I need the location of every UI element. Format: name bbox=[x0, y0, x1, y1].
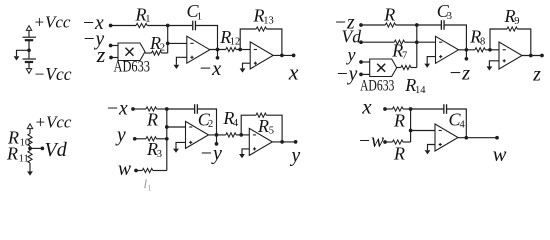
wire bbox=[361, 24, 385, 26]
node Vd input dot bbox=[359, 40, 363, 44]
wire bbox=[153, 170, 167, 172]
node -z input dot bbox=[359, 23, 363, 27]
node x output dot bbox=[292, 54, 296, 58]
wire (A6 output) bbox=[272, 141, 295, 143]
wire bbox=[267, 29, 282, 55]
node column wire bbox=[166, 109, 168, 171]
svg-text:2: 2 bbox=[160, 43, 165, 54]
node -y input dot bbox=[109, 44, 113, 48]
ground bbox=[240, 68, 246, 72]
junction dot bbox=[238, 48, 242, 52]
wire bbox=[447, 109, 467, 138]
node -x input dot bbox=[109, 24, 113, 28]
svg-text:−z: −z bbox=[448, 62, 470, 84]
junction dot bbox=[216, 48, 220, 52]
node -x input dot bbox=[131, 107, 135, 111]
multiplier U2 AD633 bbox=[370, 59, 397, 77]
junction dot bbox=[415, 23, 419, 27]
node -y input dot bbox=[359, 73, 363, 77]
power supply +Vcc terminal arrow bbox=[26, 26, 31, 31]
wire (A7 output) bbox=[458, 137, 497, 139]
wire (+ input to ground) bbox=[427, 57, 435, 64]
wire bbox=[405, 41, 417, 43]
multiplier U1 AD633 bbox=[118, 43, 145, 61]
svg-text:z: z bbox=[532, 64, 541, 85]
node w output dot bbox=[495, 136, 499, 140]
svg-text:+Vcc: +Vcc bbox=[35, 112, 72, 131]
divider +Vcc terminal arrow bbox=[27, 124, 32, 129]
node -w input dot bbox=[383, 140, 387, 144]
wire bbox=[397, 67, 401, 69]
junction dot bbox=[215, 133, 219, 137]
wire bbox=[396, 24, 417, 26]
junction dot bbox=[166, 42, 170, 46]
svg-text:12: 12 bbox=[230, 37, 241, 48]
svg-text:R: R bbox=[383, 5, 395, 25]
junction dot bbox=[165, 107, 169, 111]
wire (A3 output) bbox=[459, 49, 476, 51]
svg-text:Vd: Vd bbox=[45, 139, 68, 161]
wire bbox=[145, 52, 152, 54]
resistor R bbox=[146, 107, 157, 111]
svg-text:14: 14 bbox=[415, 85, 426, 96]
svg-text:y: y bbox=[290, 146, 301, 167]
node column wire bbox=[167, 26, 169, 54]
node y output dot bbox=[294, 140, 298, 144]
feedback wire R13 (up/over) bbox=[240, 29, 256, 50]
wire (+ input to ground) bbox=[489, 61, 499, 67]
capacitor C1 bbox=[192, 21, 194, 31]
junction dot bbox=[488, 48, 492, 52]
svg-text:4: 4 bbox=[460, 119, 466, 130]
wire bbox=[28, 30, 30, 36]
wire bbox=[111, 45, 118, 47]
wire bbox=[517, 29, 531, 56]
wire bbox=[157, 108, 167, 110]
junction dot bbox=[465, 48, 469, 52]
capacitor C2 bbox=[194, 104, 196, 114]
wire bbox=[136, 170, 142, 172]
svg-text:1: 1 bbox=[145, 14, 150, 25]
svg-text:x: x bbox=[361, 94, 372, 118]
svg-text:+Vcc: +Vcc bbox=[34, 13, 71, 32]
node z input dot bbox=[109, 56, 113, 60]
wire stub bbox=[465, 50, 467, 59]
wire bbox=[196, 26, 218, 50]
junction dot bbox=[27, 48, 31, 52]
wire (A1 output) bbox=[210, 49, 226, 51]
junction dot bbox=[464, 136, 468, 140]
junction dot bbox=[165, 125, 169, 129]
junction dot bbox=[28, 147, 32, 151]
svg-text:AD633: AD633 bbox=[114, 58, 151, 75]
svg-text:8: 8 bbox=[480, 37, 485, 48]
svg-text:x: x bbox=[288, 59, 299, 84]
op-amp A1 bbox=[187, 36, 210, 63]
resistor R3 bbox=[146, 137, 157, 141]
wire bbox=[361, 41, 394, 43]
op-amp A2 bbox=[250, 42, 273, 69]
svg-text:−y: −y bbox=[200, 142, 222, 164]
feedback wire R5 (up/over) bbox=[241, 115, 256, 135]
node z output dot bbox=[540, 54, 544, 58]
svg-text:AD633: AD633 bbox=[360, 78, 394, 95]
svg-text:−x: −x bbox=[198, 58, 221, 80]
wire bbox=[30, 147, 42, 149]
wire stub bbox=[217, 50, 219, 58]
op-amp A4 bbox=[499, 42, 522, 69]
wire bbox=[361, 61, 370, 63]
wire bbox=[135, 138, 146, 140]
resistor R5 bbox=[256, 113, 266, 117]
junction dot bbox=[415, 40, 419, 44]
capacitor C4 bbox=[443, 104, 445, 114]
node y input dot bbox=[359, 60, 363, 64]
ground bbox=[173, 149, 179, 153]
node -y output dot bbox=[215, 142, 219, 146]
op-amp A3 bbox=[436, 36, 459, 63]
wire bbox=[385, 108, 393, 110]
svg-text:10: 10 bbox=[20, 138, 31, 149]
wire bbox=[167, 108, 195, 110]
wire bbox=[266, 115, 282, 142]
op-amp A6 bbox=[249, 128, 272, 155]
node y input dot bbox=[133, 137, 137, 141]
svg-text:5: 5 bbox=[269, 126, 274, 137]
wire bbox=[157, 138, 167, 140]
junction dot bbox=[166, 24, 170, 28]
wire bbox=[197, 109, 216, 135]
junction dot bbox=[529, 54, 533, 58]
svg-text:−w: −w bbox=[358, 131, 384, 152]
wire bbox=[162, 52, 168, 54]
wire (op-amp inverting input) bbox=[167, 126, 186, 128]
decoupling capacitor -Vcc plate (long) bbox=[23, 58, 37, 60]
power supply -Vcc terminal arrow bbox=[26, 69, 31, 74]
decoupling capacitor -Vcc plate (short) bbox=[25, 61, 33, 63]
wire bbox=[403, 141, 411, 143]
wire bbox=[403, 108, 411, 110]
resistor R11 bbox=[28, 151, 32, 163]
wire bbox=[411, 108, 444, 110]
junction dot bbox=[409, 107, 413, 111]
wire bbox=[236, 134, 249, 136]
wire (+ input to ground) bbox=[242, 149, 249, 154]
svg-text:11: 11 bbox=[19, 153, 29, 164]
junction dot bbox=[280, 54, 284, 58]
wire (+ input to ground) bbox=[243, 63, 251, 68]
wire bbox=[417, 24, 442, 26]
svg-text:2: 2 bbox=[208, 119, 213, 130]
svg-text:−y: −y bbox=[336, 64, 358, 85]
svg-text:w: w bbox=[118, 159, 131, 180]
svg-text:3: 3 bbox=[447, 11, 452, 22]
svg-text:7: 7 bbox=[402, 51, 407, 62]
svg-text:y: y bbox=[346, 45, 356, 65]
svg-text:R: R bbox=[6, 143, 18, 163]
svg-text:3: 3 bbox=[157, 149, 162, 160]
wire bbox=[411, 67, 417, 69]
resistor R2 bbox=[152, 51, 162, 55]
wire (A5 output) bbox=[209, 134, 226, 136]
wire (A4 output) bbox=[522, 55, 542, 57]
resistor R12 bbox=[226, 47, 236, 51]
wire to ground bbox=[17, 50, 30, 56]
feedback wire R9 (up/over) bbox=[490, 29, 507, 50]
svg-text:1: 1 bbox=[197, 12, 202, 23]
node column wire bbox=[416, 25, 418, 68]
wire bbox=[444, 25, 466, 50]
wire bbox=[29, 146, 31, 151]
op-amp A7 bbox=[435, 124, 458, 151]
resistor R10 bbox=[28, 134, 32, 146]
svg-text:z: z bbox=[96, 42, 106, 67]
wire bbox=[29, 163, 31, 171]
svg-text:13: 13 bbox=[263, 16, 274, 27]
svg-text:R: R bbox=[393, 110, 405, 130]
svg-text:1: 1 bbox=[148, 183, 152, 192]
wire bbox=[29, 129, 31, 134]
svg-text:9: 9 bbox=[514, 16, 519, 27]
svg-text:R: R bbox=[146, 109, 158, 129]
node column wire bbox=[410, 109, 412, 142]
wire bbox=[361, 73, 370, 75]
decoupling capacitor +Vcc plate (short) bbox=[25, 39, 33, 41]
svg-text:−Vcc: −Vcc bbox=[34, 64, 72, 84]
svg-text:−x: −x bbox=[106, 98, 128, 119]
decoupling capacitor +Vcc plate (long) bbox=[23, 36, 37, 38]
svg-text:R: R bbox=[257, 116, 269, 136]
wire bbox=[133, 108, 146, 110]
resistor R bbox=[393, 140, 404, 144]
wire (A2 output) bbox=[273, 54, 293, 56]
ground bbox=[487, 66, 493, 70]
ground bbox=[174, 65, 180, 69]
resistor R bbox=[393, 107, 404, 111]
wire bbox=[236, 49, 250, 51]
resistor R7 bbox=[394, 40, 404, 44]
node Vd dot bbox=[41, 147, 45, 151]
resistor bbox=[142, 168, 153, 172]
wire bbox=[385, 141, 393, 143]
resistor R4 bbox=[226, 133, 236, 137]
wire (op-amp inverting input) bbox=[168, 42, 187, 44]
resistor R8 bbox=[475, 48, 485, 52]
svg-text:y: y bbox=[115, 125, 126, 146]
resistor R1 bbox=[136, 23, 147, 27]
resistor R bbox=[385, 23, 395, 27]
wire stub bbox=[216, 135, 218, 144]
svg-text:Vd: Vd bbox=[342, 27, 362, 47]
ground (filled arrow) bbox=[27, 171, 33, 175]
node -x output dot bbox=[216, 56, 220, 60]
op-amp A5 bbox=[186, 121, 209, 148]
junction dot bbox=[409, 129, 413, 133]
svg-text:4: 4 bbox=[233, 118, 239, 129]
node w input dot bbox=[134, 169, 138, 173]
wire (op-amp inverting input) bbox=[417, 41, 436, 43]
svg-text:R: R bbox=[393, 144, 405, 164]
wire bbox=[111, 57, 118, 59]
junction dot bbox=[239, 133, 243, 137]
wire (op-amp inverting input) bbox=[411, 130, 435, 132]
ground bbox=[425, 150, 431, 154]
svg-text:w: w bbox=[493, 144, 507, 166]
junction dot bbox=[165, 137, 169, 141]
resistor R9 bbox=[507, 27, 517, 31]
resistor R14 bbox=[401, 65, 411, 69]
node x input dot bbox=[383, 107, 387, 111]
wire bbox=[168, 25, 192, 27]
ground bbox=[239, 154, 245, 158]
node -z output dot bbox=[465, 57, 469, 61]
wire bbox=[111, 25, 136, 27]
ground bbox=[424, 64, 430, 68]
wire bbox=[485, 49, 499, 51]
capacitor C3 bbox=[440, 20, 442, 30]
wire (+ input to ground) bbox=[176, 142, 186, 148]
wire (+ input to ground) bbox=[176, 57, 186, 65]
junction dot bbox=[280, 140, 284, 144]
wire bbox=[28, 41, 30, 59]
wire bbox=[28, 63, 30, 69]
wire (+ input to ground) bbox=[428, 145, 436, 151]
ground bbox=[14, 56, 20, 60]
wire bbox=[147, 25, 168, 27]
resistor R13 bbox=[256, 27, 266, 31]
